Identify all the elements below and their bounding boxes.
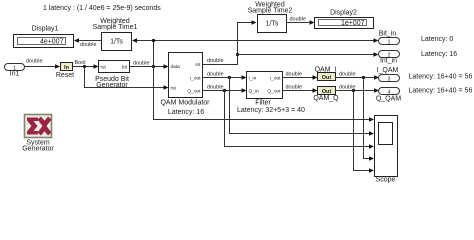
wire QAM I_out to Filter I_in [203, 71, 247, 79]
svg-text:Generator: Generator [22, 145, 54, 152]
svg-text:I_in: I_in [249, 75, 257, 81]
wire Out2 to Q_QAM port [336, 88, 380, 92]
svg-text:1e+007: 1e+007 [341, 20, 365, 27]
junction QAM_I scope branch [362, 76, 365, 79]
svg-text:1: 1 [388, 39, 391, 45]
gateway In block Reset [56, 63, 74, 79]
block Weighted Sample Time1 [93, 18, 138, 50]
svg-text:double: double [290, 16, 307, 22]
label double after Out2 [339, 84, 356, 90]
block Scope [375, 116, 398, 184]
block QAM Modulator [160, 53, 210, 116]
block Weighted Sample Time2 [248, 2, 293, 33]
svg-text:In1: In1 [10, 71, 20, 78]
svg-text:double: double [133, 61, 150, 67]
svg-text:double: double [339, 71, 356, 77]
svg-text:double: double [207, 84, 224, 90]
junction QAM_Q scope branch [352, 89, 355, 92]
output port I_QAM [377, 67, 473, 83]
svg-text:Sample Time2: Sample Time2 [248, 7, 293, 14]
output port Int_in [379, 51, 458, 65]
wire bit branch down to scope [154, 67, 375, 122]
junction bit node [152, 65, 155, 68]
annotation top [43, 5, 161, 12]
svg-text:Display1: Display1 [32, 26, 59, 33]
svg-text:Latency: 16+40 = 56: Latency: 16+40 = 56 [409, 87, 473, 94]
svg-text:Int_in: Int_in [380, 57, 397, 64]
svg-text:bit: bit [122, 64, 128, 70]
wire In1 to Reset gateway [25, 59, 61, 69]
wire QAM_I branch down to scope [364, 78, 375, 161]
svg-text:Latency: 0: Latency: 0 [421, 36, 453, 43]
svg-text:double: double [207, 58, 224, 64]
block System Generator [22, 115, 54, 153]
svg-text:Q_QAM: Q_QAM [376, 95, 401, 102]
wire Filter Q_out to Out2 [283, 84, 318, 92]
block Filter [237, 72, 305, 115]
svg-text:rst: rst [101, 64, 107, 70]
svg-text:double: double [26, 59, 43, 65]
svg-text:1/Ts: 1/Ts [266, 21, 279, 28]
junction int node [236, 53, 239, 56]
svg-text:1 latency : (1 / 40e6 = 25e-9): 1 latency : (1 / 40e6 = 25e-9) seconds [43, 5, 161, 12]
svg-text:4e+007: 4e+007 [40, 38, 64, 45]
gateway Out block QAM_Q [313, 87, 339, 103]
wire bit to QAM data [130, 61, 169, 69]
wire Bool: Reset to Pseudo Bit Generator [73, 60, 99, 69]
input port In1 [5, 64, 25, 78]
svg-text:I_out: I_out [190, 75, 201, 81]
wire int branch to Int_in port [238, 52, 379, 56]
svg-text:3: 3 [388, 76, 391, 82]
svg-text:double: double [286, 71, 303, 77]
wire Out1 to I_QAM port [336, 71, 380, 79]
svg-text:Out: Out [322, 75, 332, 81]
wire Bool branch to QAM rst [85, 67, 169, 90]
svg-text:Latency: 16: Latency: 16 [421, 51, 457, 58]
svg-text:Generator: Generator [96, 82, 128, 89]
wire I branch down to scope [230, 78, 375, 136]
output port Q_QAM [376, 87, 473, 102]
output port Bit_in [379, 31, 454, 46]
svg-text:Latency: 32+5+3 = 40: Latency: 32+5+3 = 40 [237, 107, 305, 114]
svg-text:Scope: Scope [376, 176, 396, 183]
junction Q branch [223, 89, 226, 92]
svg-text:int: int [195, 62, 201, 68]
svg-text:data: data [171, 64, 181, 70]
svg-text:Q_out: Q_out [187, 88, 201, 94]
svg-text:I_out: I_out [270, 75, 281, 81]
block Display2 [315, 10, 374, 29]
svg-text:Latency: 16+40 = 56: Latency: 16+40 = 56 [409, 74, 473, 81]
wire Q branch down to scope [225, 91, 375, 149]
wire Filter I_out to Out1 [283, 71, 318, 79]
svg-text:Q_in: Q_in [249, 88, 259, 94]
svg-text:In: In [64, 65, 70, 71]
svg-text:Q_out: Q_out [267, 88, 281, 94]
svg-text:double: double [207, 71, 224, 77]
wire QAM_Q branch down to scope [354, 91, 375, 173]
wire WST2 to Display2 [287, 16, 315, 24]
svg-text:rst: rst [171, 86, 177, 92]
svg-text:double: double [286, 84, 303, 90]
svg-text:Filter: Filter [255, 99, 271, 106]
wire bit branch up to WST1 and Bit_in port [132, 38, 379, 66]
svg-text:Reset: Reset [56, 72, 74, 79]
block Display1 [14, 26, 74, 48]
junction I branch [228, 76, 231, 79]
block Pseudo Bit Generator [95, 61, 129, 89]
gateway Out block QAM_I [315, 67, 337, 82]
svg-text:double: double [80, 42, 97, 48]
wire WST1 to Display1 [74, 38, 102, 48]
svg-text:I_QAM: I_QAM [377, 67, 399, 74]
junction Bool branch [83, 65, 86, 68]
svg-text:QAM Modulator: QAM Modulator [160, 100, 210, 107]
wire int to WST2 and Int_in [203, 20, 257, 64]
svg-text:Bit_in: Bit_in [379, 31, 397, 38]
svg-text:1/Ts: 1/Ts [110, 39, 123, 46]
junction bit top node [152, 39, 155, 42]
svg-text:Display2: Display2 [330, 10, 357, 17]
svg-text:QAM_I: QAM_I [315, 67, 337, 74]
wire QAM Q_out to Filter Q_in [203, 84, 247, 92]
svg-text:QAM_Q: QAM_Q [313, 95, 339, 102]
svg-text:Latency: 16: Latency: 16 [168, 109, 204, 116]
svg-text:Sample Time1: Sample Time1 [93, 24, 138, 31]
